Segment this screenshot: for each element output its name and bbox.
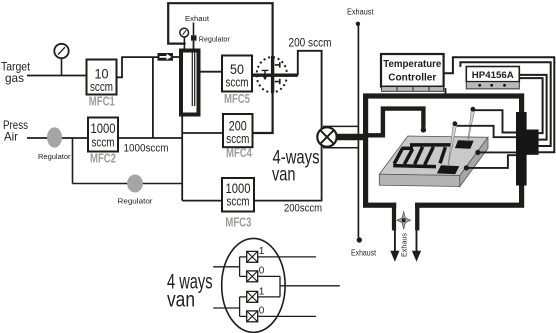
- svg-text:Exhaut: Exhaut: [185, 14, 210, 23]
- svg-text:MFC4: MFC4: [226, 146, 252, 160]
- node probe 2 dot: [453, 121, 458, 126]
- node chip corner dot: [464, 165, 469, 170]
- 4-way valve V1 (circle with X): [317, 127, 336, 146]
- valve S1 (box with X): [247, 251, 258, 262]
- wire branch down to regulator R2: [72, 138, 74, 184]
- regulator R2 (ellipse): [127, 175, 143, 193]
- wire press air to MFC2: [27, 137, 89, 139]
- wire rotary valve to 4-way valve: [298, 51, 322, 130]
- wire output S1: [258, 256, 316, 258]
- wire manifold to MFC4: [182, 132, 223, 134]
- node Target gas label: [1, 59, 31, 85]
- exhaust arrow right: [416, 229, 418, 252]
- node probe 1 dot: [471, 107, 476, 112]
- svg-text:1: 1: [259, 286, 265, 297]
- svg-text:van: van: [272, 164, 296, 186]
- probe needle 1: [468, 110, 475, 142]
- node exhaust bottom dot: [357, 237, 362, 242]
- svg-text:0: 0: [259, 265, 265, 276]
- svg-text:sccm: sccm: [90, 79, 113, 94]
- wire output S2-S3 joined: [258, 276, 340, 297]
- feedthrough connector bar: [516, 112, 527, 186]
- wire MFC2 output to manifold: [118, 137, 182, 139]
- wire manifold vertical: [181, 115, 183, 201]
- regulator square on bubbler: [191, 35, 197, 40]
- svg-text:0: 0: [259, 305, 265, 316]
- svg-text:Controller: Controller: [388, 72, 436, 83]
- exhaust stub left: [392, 203, 396, 231]
- svg-text:200 sccm: 200 sccm: [289, 37, 332, 49]
- 4 ways van detail ellipse: [222, 238, 285, 332]
- MFC4 200 sccm: [223, 114, 253, 147]
- temperature controller box U1: [381, 54, 444, 87]
- node Press Air label: [3, 118, 28, 144]
- svg-text:MFC1: MFC1: [89, 94, 115, 108]
- electrode pad bottom: [437, 165, 459, 174]
- wire B to feedthrough: [460, 62, 550, 146]
- label 4-ways van: [272, 146, 320, 185]
- wire MFC1 to check valve: [117, 57, 158, 77]
- svg-text:HP4156A: HP4156A: [472, 70, 514, 81]
- node chip edge dot: [475, 150, 480, 155]
- valve S2 (box with X): [247, 271, 258, 282]
- MFC3 1000 sccm: [222, 178, 254, 212]
- wire chip corner to feedthrough: [469, 155, 518, 168]
- wire target gas to MFC1: [27, 75, 86, 77]
- HP4156A analyzer box U2: [466, 67, 519, 82]
- svg-text:gas: gas: [5, 71, 24, 85]
- wire input 2: [213, 297, 247, 317]
- svg-text:MFC2: MFC2: [90, 151, 116, 165]
- svg-text:1000sccm: 1000sccm: [124, 143, 169, 155]
- wire C analyzer to feedthrough: [519, 75, 546, 140]
- svg-text:sccm: sccm: [226, 131, 249, 146]
- wire recirculation loop box: [168, 3, 272, 133]
- wire MFC3 output to 4-way valve: [254, 145, 322, 201]
- node exhaust top dot: [356, 22, 360, 26]
- valve S4 (box with X): [247, 311, 258, 322]
- test chamber walls: [366, 96, 522, 205]
- bubbler dip tube: [193, 41, 195, 50]
- svg-text:1: 1: [259, 246, 265, 257]
- bubbler vessel: [181, 51, 199, 115]
- wire chip edge to feedthrough: [480, 151, 517, 153]
- wire check valve to bubbler: [173, 56, 181, 58]
- pipe valve to chamber (thick): [336, 134, 366, 140]
- probe needle 2: [448, 124, 457, 166]
- svg-text:Exhaust: Exhaust: [351, 249, 377, 258]
- exhaust stub right: [415, 203, 419, 231]
- wire exhaust vertical line: [357, 26, 359, 238]
- wire junction down to MFC2 output line: [152, 57, 154, 138]
- wire D analyzer to feedthrough: [519, 78, 542, 133]
- svg-text:MFC5: MFC5: [224, 92, 250, 106]
- label 4 ways van: [167, 271, 213, 312]
- pipe gas nozzle inside chamber: [366, 109, 423, 136]
- MFC5 50 sccm: [222, 56, 252, 92]
- svg-text:Regulator: Regulator: [199, 34, 230, 43]
- svg-text:sccm: sccm: [226, 74, 249, 89]
- valve port symbol left: [262, 70, 269, 76]
- wire manifold to MFC3: [182, 200, 222, 202]
- electrode pad top: [455, 140, 474, 149]
- sensor chip front face: [379, 174, 460, 186]
- chamber bottom exhaust opening: [396, 199, 415, 209]
- wire output S4: [258, 315, 316, 317]
- wire MFC5 through rotary valve (cross horizontal): [252, 73, 298, 76]
- rotary selector valve (dotted circle): [257, 57, 287, 92]
- MFC2 1000 sccm: [88, 118, 118, 152]
- wire rotary valve cross vertical: [271, 56, 274, 93]
- check valve (black box with arrow): [158, 53, 174, 61]
- wire regulator R2 line: [73, 183, 183, 185]
- svg-text:Regulator: Regulator: [38, 152, 71, 161]
- regulator R1 (ellipse): [47, 127, 62, 147]
- heater serpentine on chip: [393, 145, 452, 167]
- sensor chip top face: [379, 136, 488, 176]
- pressure gauge G2 on bubbler: [183, 36, 185, 50]
- MFC1 10 sccm: [87, 60, 117, 95]
- exhaust arrow left: [394, 229, 396, 252]
- HP4156A base strip: [466, 82, 519, 89]
- temperature controller base strip: [382, 87, 444, 92]
- svg-text:sccm: sccm: [92, 134, 115, 149]
- pressure gauge G1: [61, 58, 63, 75]
- svg-text:200sccm: 200sccm: [284, 203, 322, 215]
- valve port symbol upper right: [275, 62, 280, 67]
- wire exhaut down to regulator square: [193, 23, 195, 36]
- wire probe 1 to feedthrough: [475, 110, 518, 132]
- svg-text:Exhaust: Exhaust: [347, 7, 374, 16]
- svg-text:van: van: [167, 289, 195, 312]
- svg-text:Regulator: Regulator: [118, 197, 153, 206]
- wire input 1: [213, 257, 247, 277]
- wire valve to exhaust bracket top: [323, 125, 358, 127]
- wire A controller to feedthrough (outer): [444, 57, 555, 152]
- svg-text:Temperature: Temperature: [383, 59, 442, 70]
- wire probe 2 to feedthrough: [457, 126, 517, 137]
- valve port symbol lower right: [275, 79, 280, 84]
- svg-text:Air: Air: [4, 130, 18, 144]
- feedthrough connector block: [516, 130, 539, 155]
- wire valve to exhaust bracket bottom: [323, 147, 358, 149]
- svg-text:MFC3: MFC3: [225, 215, 251, 229]
- valve S3 (box with X): [247, 291, 258, 302]
- svg-text:Exhaus: Exhaus: [400, 233, 409, 257]
- svg-text:sccm: sccm: [227, 194, 250, 209]
- wire bubbler to MFC5: [199, 71, 223, 73]
- wire controller to chamber: [444, 88, 446, 95]
- node nozzle tip dot: [421, 127, 426, 132]
- star symbol: [397, 212, 411, 230]
- sensor chip right face: [460, 137, 488, 186]
